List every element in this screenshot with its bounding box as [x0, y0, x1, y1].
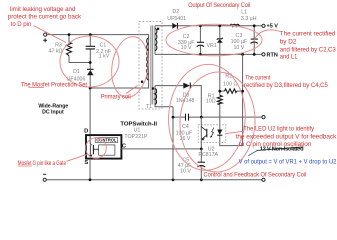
svg-text:The current rectified: The current rectified [280, 30, 336, 37]
svg-text:1 kV: 1 kV [99, 54, 110, 60]
transformer T1 dashed box [139, 21, 162, 109]
transformer T1 core [151, 26, 153, 105]
svg-text:10 V: 10 V [233, 45, 244, 51]
svg-text:+5 V: +5 V [267, 24, 279, 30]
capacitor C4 [186, 114, 189, 121]
wire secondary output rail [155, 25, 262, 27]
annotation ellipse feedback inner [177, 70, 257, 174]
wire bias ground return [172, 107, 174, 180]
diode D3 [155, 86, 201, 118]
svg-text:RTN: RTN [267, 52, 278, 58]
wire RTN rail [155, 53, 262, 55]
wire LED return loop [220, 54, 243, 145]
resistor R3 [67, 42, 72, 55]
svg-text:47 kΩ: 47 kΩ [49, 48, 63, 54]
U2 LED [217, 130, 222, 135]
ground rail [46, 179, 262, 181]
U1 internal block [99, 145, 115, 155]
op-amp U1 TOPSwitch box [86, 135, 121, 159]
annotation leader primary coil [126, 86, 138, 94]
node RTN terminal [262, 53, 265, 56]
annotation leader LED text [226, 131, 243, 133]
capacitor C1 [86, 46, 95, 49]
annotation leader blue [248, 151, 256, 156]
capacitor C3 [253, 26, 255, 55]
capacitor C2 [199, 26, 201, 55]
diode D2 [172, 23, 177, 29]
svg-text:S: S [84, 160, 88, 166]
svg-text:and L1: and L1 [280, 53, 298, 60]
svg-text:TOP221P: TOP221P [124, 134, 148, 140]
svg-text:to C pin control oscillation: to C pin control oscillation [239, 141, 312, 148]
svg-text:L1: L1 [241, 10, 247, 16]
node input minus terminal [43, 178, 46, 181]
U2 phototransistor [200, 117, 202, 149]
wire R3 branch [69, 35, 90, 63]
transformer secondary winding [154, 26, 156, 55]
U2 light arrow [211, 128, 214, 137]
optocoupler U2 box [198, 125, 226, 143]
svg-text:D2: D2 [172, 9, 179, 15]
svg-text:10Ω: 10Ω [206, 99, 216, 105]
svg-text:U1: U1 [134, 128, 141, 134]
annotation ellipse feedback outer [166, 62, 248, 172]
annotation leader gate text [67, 155, 87, 162]
svg-text:V of output = V of VR1 + V dro: V of output = V of VR1 + V drop to U2 [239, 159, 337, 166]
node output +5V terminal [262, 24, 265, 27]
annotation leader to D pin [34, 26, 67, 43]
annotation circle control [86, 138, 107, 159]
transformer bias winding [155, 86, 173, 107]
inductor L1 [230, 24, 240, 26]
svg-text:D1: D1 [73, 69, 80, 75]
wire C pin rail [121, 148, 201, 150]
svg-text:VR1: VR1 [206, 43, 216, 49]
svg-text:3.3 µH: 3.3 µH [241, 16, 257, 22]
svg-text:rectified by D3,filtered by C4: rectified by D3,filtered by C4,C5 [244, 82, 328, 89]
node top rail dots [199, 24, 202, 27]
capacitor C5 [200, 149, 202, 180]
svg-text:UF5401: UF5401 [167, 16, 186, 22]
transformer primary winding [147, 38, 149, 80]
svg-text:Control and Feedback Of Second: Control and Feedback Of Secondary Coil [204, 172, 307, 179]
diode D1 [89, 63, 91, 89]
svg-text:protect the current go back: protect the current go back [8, 14, 82, 21]
annotation ellipse clamp [60, 36, 119, 87]
svg-text:10 V: 10 V [181, 45, 192, 51]
svg-text:the exceeded output V for feed: the exceeded output V for feedback [236, 134, 337, 141]
svg-text:The LED U2 light to identify: The LED U2 light to identify [243, 126, 315, 133]
svg-text:D: D [84, 129, 88, 135]
annotation leader output text [254, 30, 280, 42]
svg-text:Primary coil: Primary coil [101, 93, 131, 100]
resistor R1 [217, 95, 222, 104]
svg-text:Output Of Secondary Coil: Output Of Secondary Coil [188, 2, 250, 9]
svg-text:The current: The current [245, 75, 270, 82]
wire bias rail [173, 116, 262, 118]
wire S to ground [89, 159, 91, 180]
node ground terminal right [262, 178, 265, 181]
svg-text:by D2: by D2 [280, 38, 297, 45]
svg-text:100 Ω: 100 Ω [223, 82, 237, 88]
svg-text:10 V: 10 V [180, 169, 191, 175]
annotation ellipse output [166, 24, 262, 56]
svg-text:limit leaking voltage and: limit leaking voltage and [10, 6, 76, 13]
node bias rail dots [172, 116, 175, 119]
node RTN rail dots [199, 53, 202, 56]
node junction dots clamp [68, 33, 71, 36]
node bias terminal [262, 116, 265, 119]
node C pin junction [200, 148, 203, 151]
resistor R2 [220, 90, 243, 92]
svg-text:C1: C1 [100, 43, 107, 49]
wire C1 branch [89, 35, 91, 63]
node input plus terminal [44, 33, 47, 36]
annotation ellipse primary [108, 34, 152, 99]
U1 internal mosfet [90, 135, 92, 145]
U1 CONTROL block [95, 138, 118, 143]
svg-text:DC Input: DC Input [42, 109, 64, 115]
wire input top rail [47, 35, 149, 136]
svg-text:T1: T1 [146, 104, 152, 110]
svg-text:to D pin: to D pin [11, 21, 32, 28]
zener VR1 [219, 26, 221, 96]
svg-text:C4: C4 [182, 124, 189, 130]
